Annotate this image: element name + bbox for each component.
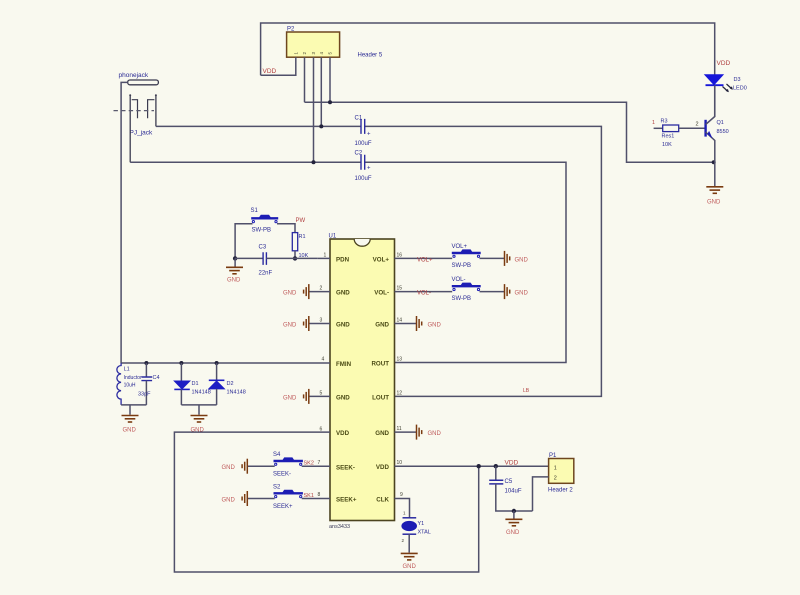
svg-text:VDD: VDD <box>336 430 350 437</box>
pin 15 VOL- <box>395 291 453 293</box>
svg-text:XTAL: XTAL <box>418 529 431 535</box>
jack contact ring (to ROUT net) <box>129 96 131 162</box>
junction D2 top <box>215 361 219 365</box>
ground at VOL- <box>505 284 510 299</box>
ground at C3 <box>226 267 243 274</box>
svg-text:GND: GND <box>375 430 389 437</box>
junction loop/pin10 <box>477 464 481 468</box>
svg-text:Y1: Y1 <box>418 521 425 527</box>
svg-text:1: 1 <box>652 120 655 126</box>
svg-text:8: 8 <box>318 492 321 498</box>
svg-text:GND: GND <box>515 257 529 263</box>
svg-text:GND: GND <box>403 564 417 570</box>
ground at pin 5 <box>304 389 309 404</box>
wire P1 pin2 to C5 bottom <box>533 477 549 511</box>
svg-text:GND: GND <box>707 199 721 205</box>
wire GND stub below C3 left <box>234 258 236 266</box>
pin 3 GND <box>309 323 330 325</box>
svg-text:GND: GND <box>283 395 297 401</box>
junction P2 pin3 on ROUT <box>312 160 316 164</box>
svg-text:PJ_jack: PJ_jack <box>130 130 154 137</box>
svg-text:SEEK+: SEEK+ <box>273 504 293 510</box>
svg-text:5: 5 <box>320 390 323 396</box>
wire P2 pins2,5 to Q1 emitter <box>305 102 714 162</box>
ground at C5 <box>505 519 522 526</box>
svg-text:LB: LB <box>523 388 530 394</box>
svg-text:P2: P2 <box>287 27 295 33</box>
svg-text:14: 14 <box>397 318 403 324</box>
junction C3 left <box>233 256 237 260</box>
wire ROUT net (jack ring, C2, pin13) <box>130 161 361 163</box>
svg-text:L1: L1 <box>124 367 130 373</box>
wire gnd stub <box>513 511 515 519</box>
svg-text:LED0: LED0 <box>733 86 747 92</box>
svg-text:12: 12 <box>397 390 403 396</box>
pin 16 VOL+ <box>395 257 453 259</box>
svg-text:PW: PW <box>296 218 306 224</box>
svg-text:11: 11 <box>397 426 402 432</box>
svg-text:10uH: 10uH <box>124 383 136 389</box>
jack contact inner left <box>132 100 138 119</box>
LED D3 <box>705 75 723 85</box>
svg-text:S2: S2 <box>273 485 281 491</box>
svg-text:D3: D3 <box>734 77 741 83</box>
svg-text:GND: GND <box>227 278 241 284</box>
svg-text:8550: 8550 <box>717 129 729 135</box>
pin 2 GND <box>309 291 330 293</box>
junction at Q1 emitter <box>712 160 716 164</box>
svg-text:FMIN: FMIN <box>336 361 352 368</box>
svg-text:GND: GND <box>515 291 529 297</box>
junction C5 bottom / gnd <box>512 509 516 513</box>
svg-text:P1: P1 <box>549 453 557 459</box>
jack contact tip (to LOUT net) <box>155 96 157 126</box>
svg-text:100uF: 100uF <box>355 141 372 147</box>
connector P1 <box>549 459 574 484</box>
svg-text:+: + <box>367 132 371 138</box>
svg-text:VOL-: VOL- <box>374 290 389 297</box>
svg-text:SK2: SK2 <box>304 460 314 466</box>
ground at pin 3 <box>304 316 309 331</box>
junction C5 top <box>494 464 498 468</box>
svg-text:Res1: Res1 <box>662 133 675 139</box>
svg-text:1N4148: 1N4148 <box>192 389 211 395</box>
diode D1 <box>180 363 182 381</box>
svg-text:2: 2 <box>320 286 323 292</box>
svg-text:Q1: Q1 <box>717 120 724 126</box>
jack dashed actuator line <box>114 110 155 112</box>
wire D1/D2 bottom <box>181 405 216 415</box>
svg-text:9: 9 <box>400 492 403 498</box>
svg-text:CLK: CLK <box>376 496 389 503</box>
svg-text:SEEK-: SEEK- <box>273 471 291 477</box>
wire L1/C4 bottom <box>121 405 146 415</box>
svg-text:GND: GND <box>222 465 236 471</box>
svg-text:13: 13 <box>397 357 403 363</box>
connector P2 <box>287 32 340 57</box>
capacitor C4 <box>145 363 147 377</box>
capacitor C2 <box>361 155 365 170</box>
svg-text:104uF: 104uF <box>505 489 522 495</box>
svg-text:SEEK-: SEEK- <box>336 464 355 471</box>
wire P2 pin1 to VDD <box>261 57 296 75</box>
svg-text:SW-PB: SW-PB <box>452 263 472 269</box>
svg-text:Inductor: Inductor <box>124 375 142 381</box>
svg-text:16: 16 <box>397 253 403 259</box>
wire S1 right to R1 top <box>277 224 295 233</box>
transistor Q1 8550 <box>704 120 706 137</box>
wire FMIN net <box>121 362 330 364</box>
ground at SEEK+ <box>242 491 247 506</box>
wire VDD top net (P2 pin1 to LED anode) <box>261 23 715 75</box>
svg-text:C1: C1 <box>355 116 363 122</box>
diode D2 <box>216 363 218 380</box>
svg-text:SW-PB: SW-PB <box>452 296 472 302</box>
svg-text:U1: U1 <box>329 234 337 240</box>
capacitor C1 <box>361 119 365 134</box>
svg-text:C5: C5 <box>505 479 513 485</box>
capacitor C5 <box>495 466 497 480</box>
svg-text:GND: GND <box>506 530 520 536</box>
junction P2 pin4 on LOUT <box>319 124 323 128</box>
ground at Q1 emitter <box>706 187 723 194</box>
svg-text:phonejack: phonejack <box>119 72 149 79</box>
svg-text:C2: C2 <box>355 151 363 157</box>
svg-text:+: + <box>367 166 371 172</box>
ground at pin 14 <box>417 316 422 331</box>
svg-text:GND: GND <box>428 431 442 437</box>
svg-text:D1: D1 <box>192 381 199 387</box>
wire VDD pin10 to P1 <box>395 465 549 467</box>
svg-text:15: 15 <box>397 286 403 292</box>
wire SEEK+ to chip <box>302 498 330 500</box>
pin 5 GND <box>309 395 330 397</box>
svg-text:100uF: 100uF <box>355 176 372 182</box>
junction R1/C3/pin1 <box>293 256 297 260</box>
ground at SEEK- <box>242 459 247 474</box>
ground at D1/D2 <box>191 416 208 423</box>
ground at pin 2 <box>304 284 309 299</box>
svg-text:GND: GND <box>336 290 350 297</box>
IC U1 body <box>330 239 395 521</box>
svg-text:VOL+: VOL+ <box>373 256 390 263</box>
wire VOL- switch to ground <box>480 291 505 293</box>
svg-text:VOL-: VOL- <box>417 291 431 297</box>
capacitor C3 <box>235 257 263 259</box>
ground at L1/C4 <box>122 416 139 423</box>
LED arrows <box>723 84 733 92</box>
wire P2 pin4 stub <box>320 57 322 126</box>
wire S1 left to C3/GND <box>235 224 252 259</box>
wire R1 bottom to pin1 net <box>294 251 296 259</box>
svg-text:VOL+: VOL+ <box>452 244 468 250</box>
svg-text:GND: GND <box>428 323 442 329</box>
wire SEEK- to chip <box>302 465 330 467</box>
svg-text:C4: C4 <box>153 375 160 381</box>
junction D1 top <box>179 361 183 365</box>
crystal Y1 <box>403 517 417 519</box>
svg-text:GND: GND <box>222 498 236 504</box>
svg-text:3: 3 <box>320 318 323 324</box>
wire CLK to crystal <box>395 499 410 518</box>
svg-text:VDD: VDD <box>717 60 731 67</box>
svg-text:VDD: VDD <box>263 68 277 75</box>
wire ground to SEEK- switch <box>248 465 275 467</box>
pin 14 GND <box>395 323 417 325</box>
svg-text:GND: GND <box>123 428 137 434</box>
wire LOUT net (jack tip, C1, pin12) <box>156 125 361 127</box>
svg-text:GND: GND <box>375 321 389 328</box>
pin 11 GND <box>395 431 417 433</box>
wire jack sleeve down to FMIN <box>121 82 128 363</box>
svg-text:VOL-: VOL- <box>452 277 466 283</box>
svg-text:2: 2 <box>554 475 557 481</box>
svg-text:PDN: PDN <box>336 256 350 263</box>
svg-text:22nF: 22nF <box>259 271 273 277</box>
svg-text:10: 10 <box>397 460 403 466</box>
svg-text:VDD: VDD <box>505 460 519 467</box>
wire VDD loop (pin6 around bottom to pin10 net) <box>174 432 478 572</box>
svg-text:LOUT: LOUT <box>372 394 389 401</box>
wire P2 pin5 stub <box>329 57 331 102</box>
svg-text:Header 5: Header 5 <box>358 53 383 59</box>
junction at P2 pin5 <box>328 100 332 104</box>
svg-text:33pF: 33pF <box>138 391 151 397</box>
jack contact inner right <box>148 100 155 119</box>
wire VOL+ switch to ground <box>480 257 505 259</box>
svg-text:R1: R1 <box>299 234 306 240</box>
inductor L1 <box>117 363 121 405</box>
svg-text:SK1: SK1 <box>304 493 314 499</box>
svg-text:D2: D2 <box>227 381 234 387</box>
svg-text:2: 2 <box>696 122 699 128</box>
junction C4 top <box>144 361 148 365</box>
ground at VOL+ <box>505 251 510 266</box>
svg-text:SEEK+: SEEK+ <box>336 496 357 503</box>
resistor R1 <box>292 233 297 251</box>
pin 1 PDN <box>318 257 330 259</box>
wire P2 pin3 stub <box>313 57 315 162</box>
svg-text:7: 7 <box>318 460 321 466</box>
svg-text:Header 2: Header 2 <box>548 488 573 494</box>
svg-text:C3: C3 <box>259 245 267 251</box>
svg-text:R3: R3 <box>661 119 668 125</box>
wire crystal to ground <box>408 534 410 552</box>
svg-text:ans3433: ans3433 <box>329 524 350 530</box>
svg-text:ROUT: ROUT <box>371 360 389 367</box>
ground at pin 11 <box>417 425 422 440</box>
svg-text:10K: 10K <box>662 142 672 148</box>
svg-text:S4: S4 <box>273 452 281 458</box>
svg-text:S1: S1 <box>251 208 259 214</box>
svg-text:1: 1 <box>554 465 557 471</box>
svg-text:1: 1 <box>324 253 327 259</box>
svg-text:SW-PB: SW-PB <box>252 228 272 234</box>
ground at Y1 <box>401 553 418 560</box>
svg-text:GND: GND <box>283 323 297 329</box>
wire ground to SEEK+ switch <box>248 498 275 500</box>
svg-text:VOL+: VOL+ <box>417 258 433 264</box>
svg-text:GND: GND <box>283 291 297 297</box>
svg-text:GND: GND <box>336 321 350 328</box>
svg-text:GND: GND <box>336 394 350 401</box>
svg-text:1N4148: 1N4148 <box>227 389 246 395</box>
svg-text:4: 4 <box>322 357 325 363</box>
wire P2 pin2 stub <box>304 57 306 102</box>
svg-text:VDD: VDD <box>376 464 390 471</box>
